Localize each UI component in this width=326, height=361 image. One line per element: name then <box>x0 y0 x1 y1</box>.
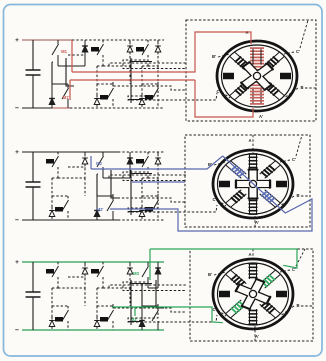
svg-text:A': A' <box>259 114 263 119</box>
svg-text:B: B <box>296 303 299 308</box>
svg-text:+: + <box>15 37 19 44</box>
svg-text:M3: M3 <box>133 271 139 276</box>
svg-text:C': C' <box>296 49 300 54</box>
svg-text:+: + <box>15 259 19 266</box>
svg-text:A': A' <box>255 334 259 339</box>
svg-text:B': B' <box>208 272 212 277</box>
svg-text:–: – <box>15 327 19 334</box>
svg-text:M1: M1 <box>61 49 67 54</box>
svg-text:B: B <box>296 193 299 198</box>
svg-text:M2: M2 <box>96 161 102 166</box>
svg-text:+: + <box>15 149 19 156</box>
svg-text:M1': M1' <box>63 95 70 100</box>
svg-text:B: B <box>300 85 303 90</box>
svg-text:A: A <box>248 252 251 257</box>
svg-text:A': A' <box>255 220 259 225</box>
svg-text:–: – <box>15 217 19 224</box>
svg-text:B': B' <box>212 54 216 59</box>
svg-text:C': C' <box>292 157 296 162</box>
svg-text:M2': M2' <box>97 207 104 212</box>
svg-text:A: A <box>248 138 251 143</box>
svg-text:–: – <box>15 105 19 112</box>
